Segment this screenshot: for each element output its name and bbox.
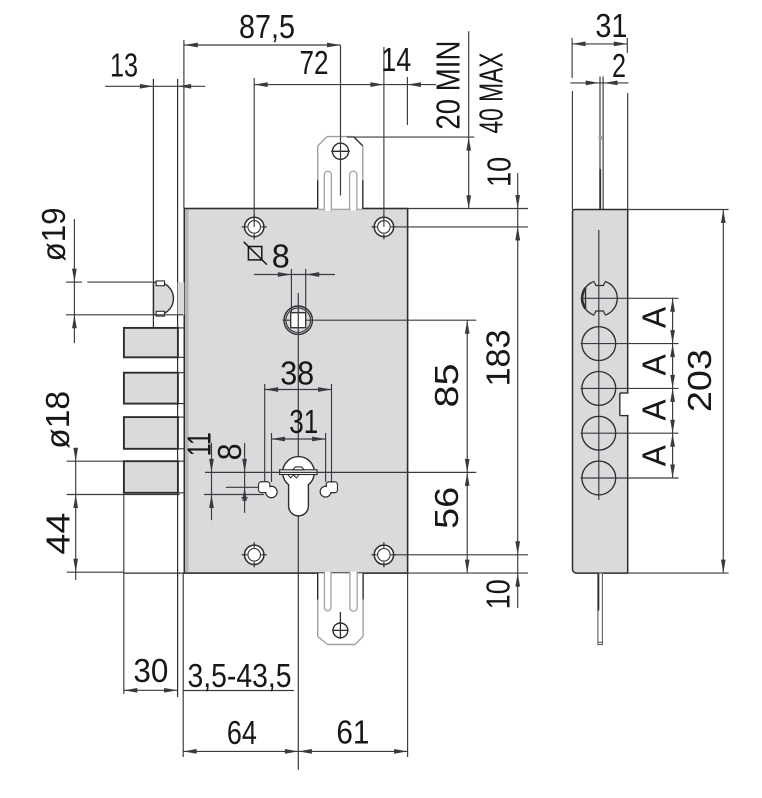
spindle horizontal centerline xyxy=(283,319,477,321)
dim 2 (faceplate thickness) xyxy=(570,47,628,85)
dim 20 MIN / 40 MAX (tab travel) xyxy=(347,31,510,209)
svg-text:31: 31 xyxy=(289,403,318,440)
svg-text:10: 10 xyxy=(480,579,517,609)
fixing hole bottom-right xyxy=(371,542,396,567)
svg-text:183: 183 xyxy=(479,330,516,387)
svg-text:2: 2 xyxy=(612,47,626,84)
deadbolt 2 (flat bolt ø18) xyxy=(124,373,184,404)
svg-text:44: 44 xyxy=(40,513,77,555)
side body edge notch xyxy=(620,393,629,416)
fixing hole bottom-left xyxy=(242,542,267,567)
bottom mounting tab xyxy=(318,573,363,644)
svg-text:64: 64 xyxy=(227,714,257,751)
bottom tab slot left xyxy=(324,572,331,611)
svg-text:85: 85 xyxy=(428,364,465,408)
faceplate inner line below body xyxy=(182,573,184,757)
svg-text:8: 8 xyxy=(272,238,290,275)
top tab slot right xyxy=(350,171,357,210)
faceplate left edge line xyxy=(152,79,154,328)
top tab slot left xyxy=(324,171,331,210)
dim ø18 (flat bolts) xyxy=(39,391,180,580)
dim 11 (pin hole vertical offset) xyxy=(181,432,264,520)
dim 8 (pin hole offset) xyxy=(211,443,258,513)
side bolt circle 5 xyxy=(582,461,616,495)
cylinder horizontal centerline xyxy=(205,471,476,473)
svg-text:13: 13 xyxy=(110,47,138,84)
dim ø19 (round bolt) xyxy=(35,207,183,343)
lock vertical centerline xyxy=(297,293,299,770)
fixing hole top-left xyxy=(242,214,267,239)
dim 31 (case depth) xyxy=(572,7,628,209)
dim 14 xyxy=(381,41,436,227)
dim square 8 (follower square) xyxy=(244,238,335,313)
deadbolt 3 (flat bolt ø18) xyxy=(124,417,184,449)
svg-text:A: A xyxy=(636,307,673,328)
svg-text:A: A xyxy=(636,354,673,375)
cylinder cam slot xyxy=(280,467,317,478)
svg-text:A: A xyxy=(636,445,673,466)
svg-text:72: 72 xyxy=(300,44,329,81)
dim 61 xyxy=(298,573,407,757)
bottom tab slot right xyxy=(350,572,357,612)
deadbolt 4 (flat bolt ø18) xyxy=(124,461,184,493)
side bolt circle 2 xyxy=(582,327,616,361)
dim 13 (faceplate width) xyxy=(105,47,205,89)
side bolts vertical centerline xyxy=(598,230,600,500)
svg-text:30: 30 xyxy=(133,652,168,689)
pin hole left of cylinder xyxy=(259,482,277,498)
dim 183 (hole spacing) xyxy=(394,227,528,555)
svg-text:31: 31 xyxy=(595,7,627,44)
deadbolt 1 (flat bolt ø18) xyxy=(124,328,184,357)
dim 30 (bolt throw) xyxy=(124,495,178,694)
dim 72 xyxy=(254,44,384,227)
svg-text:ø18: ø18 xyxy=(39,391,76,449)
svg-text:3,5-43,5: 3,5-43,5 xyxy=(188,657,292,694)
svg-text:40 MAX: 40 MAX xyxy=(473,53,510,134)
svg-text:A: A xyxy=(636,400,673,421)
lock body plate (front view) xyxy=(184,209,407,574)
dim 203 (case height) xyxy=(628,210,729,574)
faceplate edge below body xyxy=(598,573,603,645)
side bolt circle 1 (ø19, notched) xyxy=(582,279,617,317)
top mounting tab xyxy=(318,137,363,209)
svg-text:87,5: 87,5 xyxy=(239,8,295,45)
faceplate right edge line xyxy=(177,79,179,697)
svg-text:14: 14 xyxy=(381,41,411,78)
dim 3,5-43,5 (backset range label) xyxy=(183,657,294,694)
dim 31 (pin hole centers) xyxy=(272,403,326,482)
svg-text:203: 203 xyxy=(681,349,718,412)
side bolt circle 4 xyxy=(582,416,616,450)
svg-text:56: 56 xyxy=(428,487,465,529)
dim 56 (cylinder to body bottom) xyxy=(428,472,470,573)
spindle follower (8 mm square hub) xyxy=(284,306,312,334)
top tab screw hole xyxy=(331,143,350,159)
side bolt circle 3 xyxy=(582,372,616,406)
svg-text:61: 61 xyxy=(336,714,369,751)
top tab centerline xyxy=(340,45,342,196)
euro cylinder hole xyxy=(283,457,315,516)
round bolt ø19 (latch) xyxy=(154,281,185,316)
dim A chain (bolt spacing) xyxy=(581,298,679,478)
body-left extension line above body xyxy=(183,40,185,209)
dim 87,5 xyxy=(184,8,340,47)
svg-text:38: 38 xyxy=(280,354,314,391)
dim 64 xyxy=(183,714,298,754)
faceplate edge above body xyxy=(599,77,604,210)
bottom tab screw hole xyxy=(332,612,348,639)
svg-text:8: 8 xyxy=(211,443,248,460)
body bottom edge extension to bolts xyxy=(124,572,184,574)
svg-text:ø19: ø19 xyxy=(35,207,72,261)
svg-text:20 MIN: 20 MIN xyxy=(430,41,467,130)
dim 10 (top hole offset) xyxy=(394,157,528,608)
fixing hole top-right xyxy=(371,214,396,239)
svg-text:10: 10 xyxy=(481,157,518,187)
dim 85 (spindle to cylinder) xyxy=(428,320,470,573)
dim 38 (pin hole notches) xyxy=(265,354,332,482)
side body plate xyxy=(573,210,628,574)
dim 44 (bolt to body bottom) xyxy=(40,513,124,573)
pin hole right of cylinder xyxy=(320,482,337,497)
dim 10 (bottom hole offset) xyxy=(408,573,528,609)
